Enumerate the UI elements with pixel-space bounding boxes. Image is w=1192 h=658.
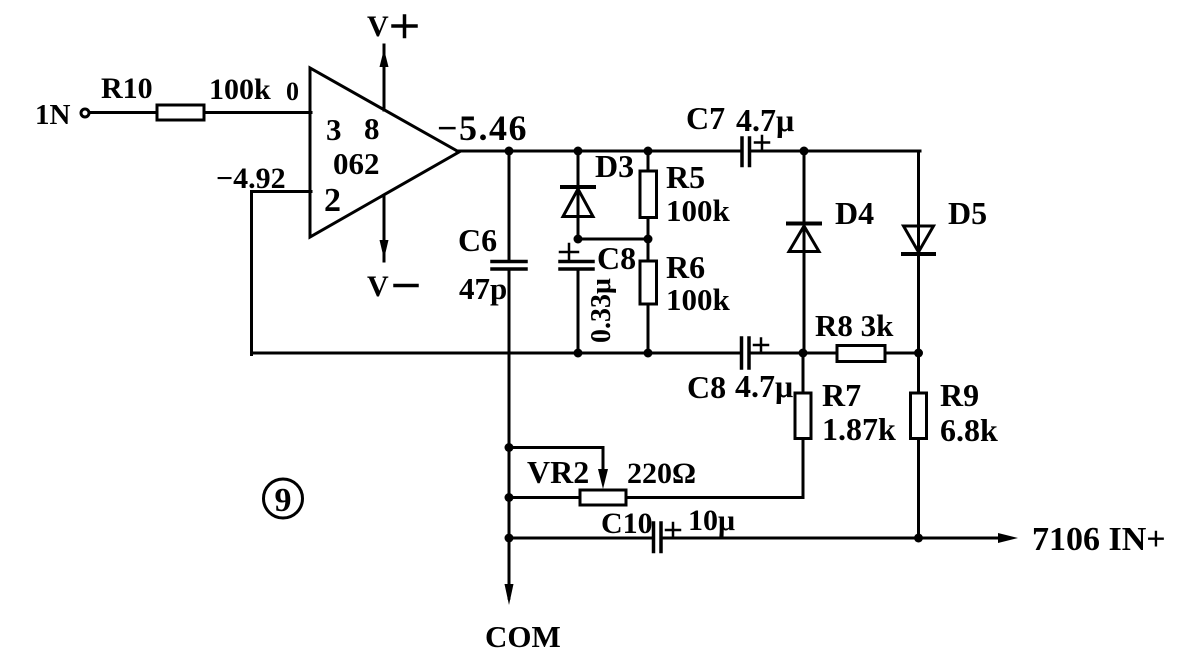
diode D5 <box>903 151 987 353</box>
svg-text:V: V <box>367 270 389 303</box>
svg-text:8: 8 <box>364 111 380 146</box>
junction D4 bottom / R7 top <box>799 349 808 358</box>
svg-text:4.7μ: 4.7μ <box>735 368 793 404</box>
svg-text:COM: COM <box>485 619 561 654</box>
junction R9 bottom <box>914 534 923 543</box>
junction VR2 top tap <box>505 443 514 452</box>
wire C10 to output arrow <box>663 537 1000 540</box>
op-amp U1 062 <box>310 68 459 237</box>
svg-text:R6: R6 <box>666 249 705 285</box>
svg-text:−5.46: −5.46 <box>437 108 528 148</box>
diode D3 <box>562 148 634 239</box>
svg-text:7106 IN+: 7106 IN+ <box>1032 521 1166 558</box>
svg-text:1.87k: 1.87k <box>822 411 896 447</box>
COM ground arrow <box>485 538 561 654</box>
svg-text:100k: 100k <box>666 193 731 228</box>
svg-text:3: 3 <box>326 112 342 147</box>
V- supply arrow <box>367 196 417 303</box>
svg-text:10μ: 10μ <box>688 504 735 537</box>
capacitor C10 10u <box>509 504 735 552</box>
junction R5 top <box>644 147 653 156</box>
wire op-amp output to C7 <box>457 150 741 153</box>
svg-text:D4: D4 <box>835 195 874 231</box>
diode D4 <box>788 151 874 353</box>
svg-text:9: 9 <box>275 482 292 519</box>
wire R10 to op-amp pin 3 <box>204 111 311 114</box>
svg-text:C8: C8 <box>597 240 636 276</box>
svg-text:R8 3k: R8 3k <box>815 308 894 343</box>
wire input to R10 <box>90 111 157 114</box>
output arrow 7106 IN+ <box>998 521 1166 558</box>
capacitor C8 4.7u <box>687 338 793 405</box>
svg-text:C7: C7 <box>686 100 725 136</box>
resistor R5 100k <box>640 151 731 239</box>
input terminal 1N <box>35 99 89 131</box>
wire C8 to R8 <box>751 352 838 355</box>
resistor R10 <box>101 72 271 120</box>
svg-text:R10: R10 <box>101 72 153 105</box>
junction D5 bottom / R9 top <box>914 349 923 358</box>
figure number 9 <box>264 479 303 519</box>
svg-text:R5: R5 <box>666 159 705 195</box>
resistor R8 3k <box>815 308 894 362</box>
svg-text:R7: R7 <box>822 377 861 413</box>
svg-text:D3: D3 <box>595 148 634 184</box>
svg-text:100k: 100k <box>666 282 731 317</box>
junction R5/R6 mid <box>644 235 653 244</box>
resistor R9 6.8k <box>911 353 999 538</box>
svg-text:4.7μ: 4.7μ <box>736 102 794 138</box>
svg-text:D5: D5 <box>948 195 987 231</box>
resistor R6 100k <box>640 239 731 353</box>
junction D3 top <box>574 147 583 156</box>
capacitor C6 47p <box>458 151 526 355</box>
junction D3/C8 mid <box>574 235 583 244</box>
svg-text:6.8k: 6.8k <box>940 412 998 448</box>
svg-text:V: V <box>367 10 389 43</box>
svg-text:0: 0 <box>286 77 299 106</box>
capacitor C7 4.7u <box>686 100 794 166</box>
wire bottom feedback rail <box>252 352 741 355</box>
resistor R7 1.87k <box>795 353 896 498</box>
svg-text:47p: 47p <box>459 271 507 306</box>
wire R8 to R9 node <box>885 352 920 355</box>
capacitor C8 0.33u <box>560 240 636 353</box>
junction C8a bottom <box>574 349 583 358</box>
wire C7 to D5 corner <box>751 150 921 153</box>
junction C10 left <box>505 534 514 543</box>
svg-text:C8: C8 <box>687 369 726 405</box>
wire C6 column down <box>508 353 511 538</box>
svg-text:C6: C6 <box>458 222 497 258</box>
svg-text:062: 062 <box>333 146 380 181</box>
junction output node <box>505 147 514 156</box>
svg-text:R9: R9 <box>940 377 979 413</box>
wire D3 node to R5/R6 node <box>578 238 648 241</box>
V+ supply arrow <box>367 10 416 110</box>
svg-text:2: 2 <box>324 182 341 219</box>
svg-text:220Ω: 220Ω <box>627 457 696 490</box>
svg-text:100k: 100k <box>209 73 271 106</box>
junction D4 top <box>800 147 809 156</box>
svg-text:VR2: VR2 <box>527 454 589 490</box>
junction VR2 left <box>505 493 514 502</box>
potentiometer VR2 220ohm <box>509 448 803 506</box>
wire op-amp pin 2 feedback <box>252 192 312 355</box>
svg-text:0.33μ: 0.33μ <box>586 278 617 343</box>
svg-text:1N: 1N <box>35 99 71 131</box>
junction R6 bottom <box>644 349 653 358</box>
svg-text:C10: C10 <box>601 507 653 540</box>
